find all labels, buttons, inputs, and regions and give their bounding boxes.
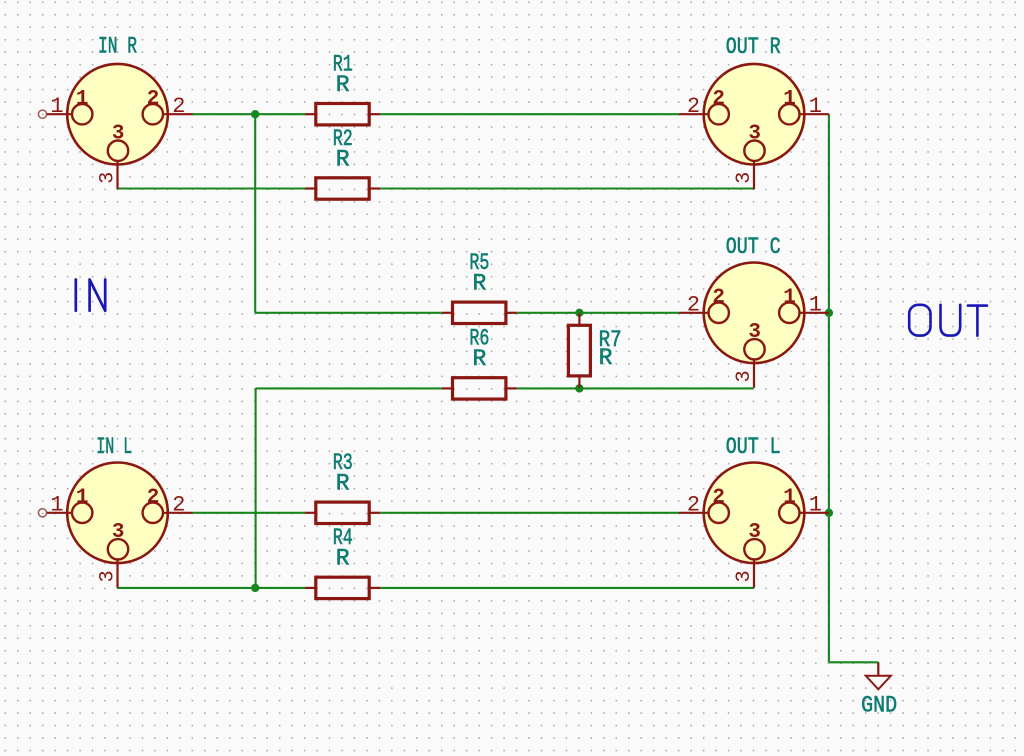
svg-text:2: 2 xyxy=(712,88,725,111)
svg-text:R: R xyxy=(472,346,486,372)
svg-text:1: 1 xyxy=(783,88,796,111)
svg-text:2: 2 xyxy=(172,94,185,119)
svg-text:IN R: IN R xyxy=(98,34,137,60)
R4 body xyxy=(316,577,369,598)
svg-text:2: 2 xyxy=(687,293,700,318)
svg-text:3: 3 xyxy=(733,570,756,582)
svg-text:2: 2 xyxy=(172,493,185,518)
IN L left pin circle xyxy=(72,503,92,523)
resistor R2 xyxy=(305,126,380,199)
svg-text:3: 3 xyxy=(733,172,756,184)
OUT C body circle xyxy=(704,263,805,364)
connector IN R (XLR symbol) xyxy=(38,64,192,189)
wire row C left: bus to R5 xyxy=(255,312,442,314)
wire row A right: R1 to OUT R pin2 xyxy=(380,113,679,115)
svg-text:IN L: IN L xyxy=(96,434,132,460)
R7 bottom pin stub xyxy=(578,376,580,388)
R7 body xyxy=(568,325,590,376)
svg-text:1: 1 xyxy=(809,293,822,318)
OUT R right pin circle xyxy=(779,104,799,124)
svg-text:R: R xyxy=(336,546,350,572)
svg-text:3: 3 xyxy=(748,321,761,344)
svg-text:3: 3 xyxy=(96,570,119,582)
svg-text:3: 3 xyxy=(748,122,761,145)
resistor R1 xyxy=(305,52,380,125)
R2 right pin stub xyxy=(369,187,380,189)
wire row B right: R2 to OUT R pin3 xyxy=(380,187,754,189)
R1 right pin stub xyxy=(369,113,380,115)
connector OUT C (XLR symbol) xyxy=(679,263,829,388)
IN R body circle xyxy=(67,64,168,165)
R1 body xyxy=(316,104,369,125)
R6 body xyxy=(453,378,506,399)
OUT L left pin wire stub xyxy=(679,512,709,514)
svg-text:R: R xyxy=(336,72,350,98)
svg-text:OUT C: OUT C xyxy=(726,234,781,260)
text IN (large) xyxy=(76,280,105,311)
wire row E right: R3 to OUT L pin2 xyxy=(380,512,679,514)
svg-text:2: 2 xyxy=(712,487,725,510)
junction node A (IN R pin2 / bus) xyxy=(251,110,259,118)
wire vertical bus from node A down to row C xyxy=(254,114,256,313)
svg-text:1: 1 xyxy=(809,94,822,119)
svg-text:1: 1 xyxy=(783,287,796,310)
IN R pin 3 wire stub xyxy=(116,161,118,190)
svg-text:R: R xyxy=(336,471,350,497)
OUT L pin 3 wire stub xyxy=(753,559,755,588)
R5 body xyxy=(453,302,506,323)
ground symbol GND xyxy=(866,662,891,689)
svg-text:3: 3 xyxy=(112,521,125,544)
svg-text:3: 3 xyxy=(112,122,125,145)
svg-text:2: 2 xyxy=(712,287,725,310)
svg-text:1: 1 xyxy=(76,88,89,111)
svg-text:1: 1 xyxy=(783,487,796,510)
svg-text:1: 1 xyxy=(809,493,822,518)
svg-text:2: 2 xyxy=(687,94,700,119)
wire output bus vertical: OUT R pin1 down to GND run xyxy=(828,114,830,662)
svg-text:GND: GND xyxy=(861,692,897,718)
OUT L right pin wire stub xyxy=(799,512,829,514)
OUT R left pin wire stub xyxy=(679,113,709,115)
IN L pin 3 circle xyxy=(108,539,128,559)
wire row F right: R4 to OUT L pin3 xyxy=(380,587,754,589)
connector OUT R (XLR symbol) xyxy=(679,64,829,189)
R4 left pin stub xyxy=(305,587,316,589)
R1 left pin stub xyxy=(305,113,316,115)
svg-text:2: 2 xyxy=(147,487,160,510)
wire vertical bus from row D down to node F xyxy=(255,388,257,588)
IN R pin 3 circle xyxy=(108,141,128,161)
R5 left pin stub xyxy=(442,312,453,314)
resistor R7 (vertical) xyxy=(568,313,621,388)
wire row D left: bus to R6 xyxy=(256,387,442,389)
R6 right pin stub xyxy=(506,387,517,389)
junction OUT C pin1 / output bus xyxy=(825,309,833,317)
IN R right pin circle xyxy=(143,104,163,124)
R2 body xyxy=(316,178,369,199)
OUT L left pin circle xyxy=(709,503,729,523)
OUT R pin 3 wire stub xyxy=(753,161,755,190)
connector OUT L (XLR symbol) xyxy=(679,463,829,588)
connector IN L (XLR symbol) xyxy=(38,463,192,588)
resistor R4 xyxy=(305,525,380,598)
svg-text:OUT L: OUT L xyxy=(726,434,781,460)
OUT L body circle xyxy=(704,463,805,564)
junction OUT L pin1 / output bus xyxy=(825,509,833,517)
R6 left pin stub xyxy=(442,387,453,389)
svg-text:3: 3 xyxy=(96,172,119,184)
text OUT (large) xyxy=(909,305,987,336)
OUT R right pin wire stub xyxy=(799,113,829,115)
R7 top pin stub xyxy=(578,313,580,325)
wire row E left: IN L pin2 to R3 xyxy=(192,512,305,514)
svg-text:3: 3 xyxy=(733,370,756,382)
svg-text:R: R xyxy=(599,345,613,371)
R3 left pin stub xyxy=(305,512,316,514)
IN L right pin circle xyxy=(143,503,163,523)
IN L pin 3 wire stub xyxy=(116,559,118,588)
wire row D right: R6 to OUT C pin3 xyxy=(517,387,754,389)
wire row C right: R5 to OUT C pin2 xyxy=(517,312,680,314)
IN L left pin wire stub xyxy=(38,509,46,517)
resistor R6 xyxy=(442,326,517,399)
IN L body circle xyxy=(67,463,168,564)
wire row B left: IN R pin3 to R2 xyxy=(118,187,306,189)
resistor R5 xyxy=(442,250,517,323)
wire row A left: IN R pin2 to R1 xyxy=(192,113,305,115)
OUT C right pin circle xyxy=(779,303,799,323)
junction R7 top xyxy=(575,309,583,317)
wire row F left: IN L pin3 to R4 xyxy=(118,587,306,589)
resistor R3 xyxy=(305,450,380,523)
svg-text:2: 2 xyxy=(687,493,700,518)
OUT R body circle xyxy=(704,64,805,165)
junction node F (IN L pin3 / bus) xyxy=(251,584,259,592)
svg-text:2: 2 xyxy=(147,88,160,111)
svg-text:1: 1 xyxy=(50,493,63,518)
OUT R pin 3 circle xyxy=(744,141,764,161)
R4 right pin stub xyxy=(369,587,380,589)
IN R left pin circle xyxy=(72,104,92,124)
svg-text:1: 1 xyxy=(50,94,63,119)
OUT C right pin wire stub xyxy=(799,312,829,314)
junction R7 bottom xyxy=(575,384,583,392)
OUT C pin 3 circle xyxy=(744,339,764,359)
R3 body xyxy=(316,502,369,523)
R3 right pin stub xyxy=(369,512,380,514)
IN R right pin wire stub xyxy=(163,113,193,115)
OUT C pin 3 wire stub xyxy=(753,359,755,388)
R5 right pin stub xyxy=(506,312,517,314)
OUT C left pin wire stub xyxy=(679,312,709,314)
svg-text:OUT R: OUT R xyxy=(726,34,781,60)
IN L right pin wire stub xyxy=(163,512,193,514)
OUT L right pin circle xyxy=(779,503,799,523)
IN R left pin wire stub xyxy=(38,110,46,118)
svg-text:R: R xyxy=(336,146,350,172)
OUT L pin 3 circle xyxy=(744,539,764,559)
wire GND run horizontal xyxy=(829,661,878,663)
R2 left pin stub xyxy=(305,187,316,189)
OUT C left pin circle xyxy=(709,303,729,323)
OUT R left pin circle xyxy=(709,104,729,124)
svg-text:1: 1 xyxy=(76,487,89,510)
svg-text:R: R xyxy=(472,271,486,297)
svg-text:3: 3 xyxy=(748,521,761,544)
